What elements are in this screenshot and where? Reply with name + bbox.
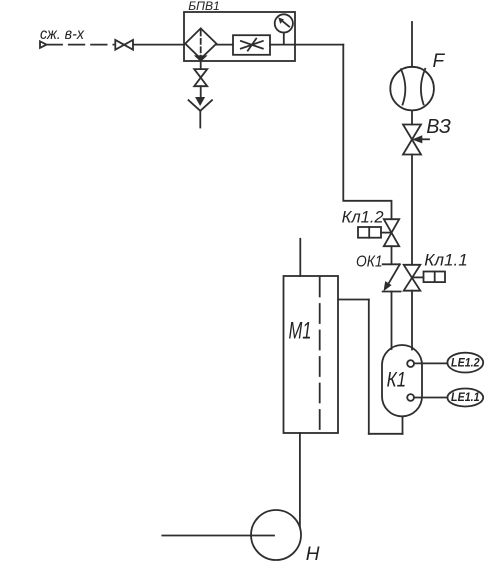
svg-text:Кл1.2: Кл1.2 <box>342 208 385 227</box>
svg-text:БПВ1: БПВ1 <box>188 1 220 13</box>
svg-text:ВЗ: ВЗ <box>426 116 451 138</box>
svg-text:Кл1.1: Кл1.1 <box>424 252 468 270</box>
svg-text:F: F <box>433 51 446 72</box>
svg-text:ОК1: ОК1 <box>356 254 383 271</box>
svg-text:сж. в-х: сж. в-х <box>40 26 85 43</box>
svg-text:LE1.2: LE1.2 <box>451 358 480 370</box>
svg-text:М1: М1 <box>289 318 312 345</box>
svg-text:К1: К1 <box>387 369 407 392</box>
svg-text:LE1.1: LE1.1 <box>451 392 480 404</box>
svg-text:Н: Н <box>306 544 320 565</box>
